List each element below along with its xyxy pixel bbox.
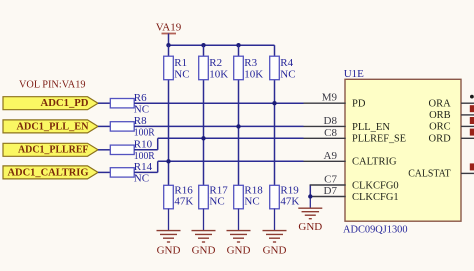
pin ORC stub right [461, 125, 474, 127]
svg-text:47K: 47K [280, 196, 299, 208]
junction rail col1 [166, 43, 170, 47]
wire column 2 vertical [203, 80, 205, 186]
junction row3 col2 [201, 136, 205, 140]
svg-text:10K: 10K [244, 68, 263, 80]
wire rail to R2 [203, 45, 205, 56]
svg-text:R8: R8 [134, 115, 147, 127]
ground GND col4 [274, 209, 276, 231]
wire rail corner down to R4 [274, 45, 276, 56]
wire row4 CALTRIG net [158, 160, 304, 162]
svg-text:ADC09QJ1300: ADC09QJ1300 [343, 224, 408, 236]
wire row1 PD net [134, 102, 303, 104]
wire row4 from R14 [134, 171, 158, 173]
svg-text:NC: NC [209, 196, 224, 208]
junction row2 col3 [236, 124, 240, 128]
wire C7 down to D7 [309, 185, 311, 197]
junction rail col2 [201, 43, 205, 47]
wire row3 from R10 [134, 149, 158, 151]
pin D8 stub [304, 125, 346, 127]
svg-text:CALTRIG: CALTRIG [352, 157, 397, 168]
svg-text:VA19: VA19 [156, 21, 182, 33]
wire rail to R3 [238, 45, 240, 56]
net label mark right edge [470, 129, 474, 136]
svg-text:PLLREF_SE: PLLREF_SE [352, 134, 406, 145]
pin CALSTAT stub right [461, 172, 474, 174]
svg-text:A9: A9 [324, 150, 338, 162]
svg-text:ADC1_PLL_EN: ADC1_PLL_EN [17, 120, 89, 132]
svg-text:R10: R10 [134, 139, 153, 151]
wire row2 PLL_EN net [134, 125, 303, 127]
resistor R16 47K [164, 185, 174, 209]
wire port4 to R14 [98, 171, 110, 173]
svg-text:VOL PIN:VA19: VOL PIN:VA19 [19, 79, 86, 91]
svg-text:GND: GND [298, 221, 322, 233]
wire row4 jog up [157, 161, 159, 172]
svg-text:D7: D7 [324, 185, 338, 197]
pin ORB stub right [461, 114, 474, 116]
wire VA19 bar to rail [168, 34, 170, 46]
svg-text:PD: PD [352, 99, 366, 110]
ground GND col1 [168, 209, 170, 231]
svg-text:CLKCFG0: CLKCFG0 [352, 180, 399, 191]
wire column 4 vertical [274, 80, 276, 186]
resistor R1 NC [164, 56, 174, 79]
svg-text:C8: C8 [324, 127, 337, 139]
resistor R4 NC [270, 56, 280, 79]
svg-text:ADC1_CALTRIG: ADC1_CALTRIG [8, 166, 89, 178]
resistor R3 10K [234, 56, 244, 79]
svg-text:R4: R4 [280, 57, 293, 69]
port ADC1_CALTRIG [3, 166, 98, 179]
pin C8 stub [304, 137, 346, 139]
wire column 3 vertical [238, 80, 240, 186]
junction dot right edge ORA [470, 95, 474, 99]
resistor R18 NC [234, 185, 244, 209]
svg-text:R2: R2 [209, 57, 222, 69]
wire row3 jog up [157, 138, 159, 150]
pin ORD stub right [461, 137, 474, 139]
junction rail col3 [236, 43, 240, 47]
junction D7 net [308, 194, 312, 198]
ground GND col3 [238, 209, 240, 231]
svg-text:CALSTAT: CALSTAT [408, 169, 451, 180]
svg-text:47K: 47K [174, 196, 193, 208]
resistor R17 NC [199, 185, 209, 209]
svg-text:GND: GND [157, 245, 181, 257]
svg-text:GND: GND [263, 245, 287, 257]
svg-text:ADC1_PD: ADC1_PD [41, 97, 89, 109]
svg-text:R1: R1 [174, 57, 187, 69]
svg-text:ORB: ORB [429, 110, 451, 121]
svg-text:R3: R3 [244, 57, 257, 69]
port ADC1_PD [3, 97, 98, 110]
port ADC1_PLL_EN [3, 120, 98, 133]
svg-text:ORC: ORC [429, 122, 451, 133]
ground GND col2 [203, 209, 205, 231]
svg-text:M9: M9 [322, 92, 338, 104]
svg-text:C7: C7 [324, 174, 337, 186]
resistor R19 47K [270, 185, 280, 209]
net label mark right edge [470, 105, 474, 112]
svg-text:10K: 10K [209, 68, 228, 80]
ground GND clkcfg [309, 197, 311, 209]
pin D7 stub [310, 196, 346, 198]
svg-text:NC: NC [244, 196, 259, 208]
resistor R2 10K [199, 56, 209, 79]
VA19 power bar symbol [162, 33, 177, 35]
op-amp/IC U1E body ADC09QJ1300 [345, 79, 461, 221]
pin M9 stub [304, 102, 346, 104]
svg-text:NC: NC [280, 68, 295, 80]
svg-text:CLKCFG1: CLKCFG1 [352, 192, 399, 203]
net label mark right edge [470, 117, 474, 124]
svg-text:GND: GND [227, 245, 251, 257]
svg-text:D8: D8 [324, 115, 338, 127]
wire column 1 vertical [168, 80, 170, 186]
pin A9 stub [304, 160, 346, 162]
pin ORA stub right [461, 102, 474, 104]
svg-text:ORA: ORA [429, 99, 452, 110]
resistor R14 NC [110, 168, 134, 177]
wire port3 to R10 [98, 149, 110, 151]
wire port1 to R6 [98, 102, 110, 104]
wire port2 to R8 [98, 125, 110, 127]
svg-text:100R: 100R [134, 127, 155, 139]
net label mark right edge [470, 163, 474, 170]
wire top rail VA19 [169, 44, 275, 46]
svg-text:NC: NC [134, 104, 149, 116]
svg-text:GND: GND [192, 245, 216, 257]
svg-text:PLL_EN: PLL_EN [352, 122, 390, 133]
svg-text:U1E: U1E [344, 68, 364, 80]
junction row4 col1 [166, 159, 170, 163]
pin C7 stub [310, 184, 346, 186]
resistor R6 NC [110, 99, 134, 108]
wire rail to R1 [168, 45, 170, 56]
svg-text:R14: R14 [134, 161, 153, 173]
junction row1 col4 [272, 101, 276, 105]
svg-text:NC: NC [174, 68, 189, 80]
port ADC1_PLLREF [3, 143, 98, 156]
resistor R8 100R [110, 122, 134, 131]
resistor R10 100R [110, 145, 134, 154]
wire row3 PLLREF_SE net [158, 137, 304, 139]
svg-text:R6: R6 [134, 92, 147, 104]
svg-text:ORD: ORD [429, 134, 452, 145]
svg-text:ADC1_PLLREF: ADC1_PLLREF [18, 144, 89, 156]
svg-text:NC: NC [134, 173, 149, 185]
